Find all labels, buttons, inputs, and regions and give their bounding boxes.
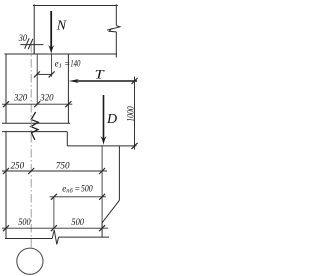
force D [100,95,106,145]
foundation chamfer [102,200,119,223]
break symbol on right edge [107,26,120,32]
foundation bottom zigzag [52,230,58,245]
force N extension line [51,54,53,77]
dimension epb ticks [51,194,57,200]
svg-text:T: T [95,68,105,82]
svg-text:140: 140 [70,58,81,68]
foundation lower right edge [101,223,103,237]
upper column top edge [33,5,118,7]
upper column right edge lower segment [115,32,117,58]
svg-text:е1 =: е1 = [55,58,71,69]
pier left edge lower part [5,132,7,239]
svg-text:750: 750 [56,162,70,172]
svg-text:320: 320 [39,94,53,104]
dimension 500/500 ticks [3,225,9,231]
upper column right edge upper segment [115,4,117,25]
dimension 500/500 line [2,227,108,229]
dimension 1000 line [134,77,136,150]
dimension 250/750 ticks [3,168,9,174]
force D extension line [101,146,103,229]
foundation bottom left segment [5,238,52,240]
dimension 320/320 line [2,103,72,105]
foundation bottom right segment [59,236,109,238]
svg-text:500: 500 [18,218,31,228]
dimension epb line [50,196,107,198]
dimension 30 ticks [25,38,30,48]
dimension 250/750 line [2,170,107,172]
pier right edge upper part [67,54,69,123]
axis dash-dot line [30,44,32,248]
dimension 1000 ticks [132,78,138,84]
pier left edge upper part [5,54,7,123]
dimension e1 ticks [34,71,40,77]
axis circle [17,248,43,274]
break zigzag [31,112,38,140]
svg-text:500: 500 [81,183,93,193]
svg-text:D: D [106,112,117,127]
pier right edge lower part [66,132,68,146]
svg-text:N: N [56,18,67,33]
svg-text:250: 250 [11,162,25,172]
dimension 320 ticks [3,101,9,107]
upper column left edge [33,4,35,54]
top surface line [5,53,118,55]
dimension 30 line [21,44,44,46]
break cut line B [2,131,67,133]
foundation top ledge [67,145,136,147]
dimension e1 line [37,73,52,75]
svg-text:30: 30 [18,34,27,44]
svg-text:500: 500 [71,218,84,228]
svg-text:=: = [74,183,80,193]
svg-text:320: 320 [13,94,27,104]
break cut line A [2,122,70,124]
pier center line [36,54,38,104]
upper column left edge extension above [33,42,35,55]
extension line foundation bottom center [53,197,55,228]
force T [69,79,137,83]
foundation right edge [118,146,120,200]
svg-text:1000: 1000 [125,106,135,122]
force N [48,11,54,54]
svg-text:епб: епб [62,183,73,194]
